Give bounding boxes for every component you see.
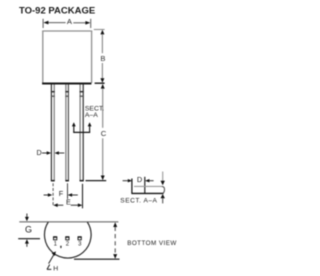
svg-text:B: B bbox=[100, 54, 105, 63]
svg-text:BOTTOM VIEW: BOTTOM VIEW bbox=[127, 240, 177, 247]
svg-text:D: D bbox=[37, 148, 42, 157]
svg-text:D: D bbox=[137, 175, 142, 184]
svg-text:A–A: A–A bbox=[85, 112, 98, 119]
svg-text:E: E bbox=[66, 198, 71, 207]
svg-text:G: G bbox=[25, 225, 32, 235]
svg-text:TO-92 PACKAGE: TO-92 PACKAGE bbox=[19, 5, 95, 16]
svg-text:C: C bbox=[101, 129, 107, 138]
svg-text:H: H bbox=[53, 266, 58, 273]
svg-text:F: F bbox=[59, 189, 64, 198]
svg-text:SECT. A–A: SECT. A–A bbox=[120, 197, 157, 204]
